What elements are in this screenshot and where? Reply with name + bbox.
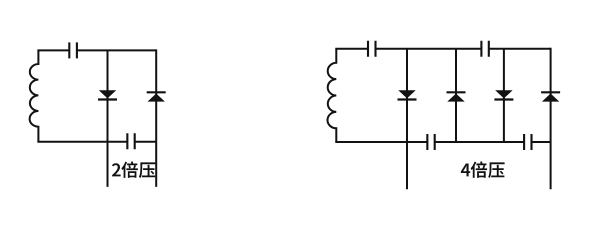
wire (top wire: C3 to C4, through nodes of D3 and D4 branches) — [376, 48, 482, 50]
inductor L1 (input coil of 2x multiplier, left side) — [30, 50, 39, 141]
wire (vertical branch of diode D3, extends below bottom wire as output lead) — [406, 49, 408, 189]
capacitor C6 (second series cap in bottom wire of 4x circuit) — [524, 134, 531, 150]
inductor L2 (input coil of 4x multiplier, left side) — [327, 49, 336, 142]
diode D1 (cathode pointing down) — [99, 90, 116, 98]
wire (vertical branch of diode D1, extends below bottom wire as output lead) — [107, 50, 109, 187]
capacitor C1 (series cap in top wire of 2x circuit) — [69, 42, 77, 58]
label "4倍压" (4x voltage) — [461, 161, 505, 178]
wire (bottom wire: C2 right plate to D2 branch) — [135, 141, 157, 143]
diode D4 (cathode pointing up) — [447, 91, 466, 93]
capacitor C5 (first series cap in bottom wire of 4x circuit) — [427, 134, 434, 150]
wire (bottom wire: L2 bottom to capacitor C5 left plate, through node of D3 branch) — [335, 141, 427, 143]
wire (top wire: L2 top to capacitor C3 left plate) — [335, 48, 368, 50]
capacitor C3 (first series cap in top wire of 4x circuit) — [368, 41, 376, 57]
diode D6 (cathode pointing up) — [541, 91, 560, 93]
wire (top wire: C1 right plate to top-right corner, through node of D1 branch) — [77, 49, 156, 51]
wire (vertical branch of diode D5, from top wire to bottom wire) — [503, 49, 505, 142]
wire (top wire: L1 top to capacitor C1 left plate) — [37, 49, 69, 51]
capacitor C2 (series cap in bottom wire of 2x circuit) — [127, 133, 134, 149]
wire (bottom wire: C5 to C6, through nodes of D4 and D5 branches) — [435, 141, 524, 143]
wire (top wire: C4 right plate to top-right corner) — [489, 48, 551, 50]
wire (vertical branch of diode D4, from top wire to bottom wire) — [455, 49, 457, 142]
wire (bottom wire: L1 bottom to capacitor C2 left plate, through node of D1 branch) — [37, 141, 127, 143]
diode D5 (cathode pointing down) — [495, 90, 512, 98]
wire (right vertical branch of diode D2, extends below bottom wire as output lead) — [155, 49, 157, 187]
diode D2 (cathode pointing up) — [147, 91, 166, 93]
diode D3 (cathode pointing down) — [398, 90, 415, 98]
capacitor C4 (second series cap in top wire of 4x circuit) — [481, 41, 488, 57]
wire (right vertical branch of diode D6, extends below bottom wire as output lead) — [550, 48, 552, 189]
wire (bottom wire: C6 right plate to D6 branch) — [532, 141, 551, 143]
label "2倍压" (2x voltage) — [112, 161, 155, 178]
